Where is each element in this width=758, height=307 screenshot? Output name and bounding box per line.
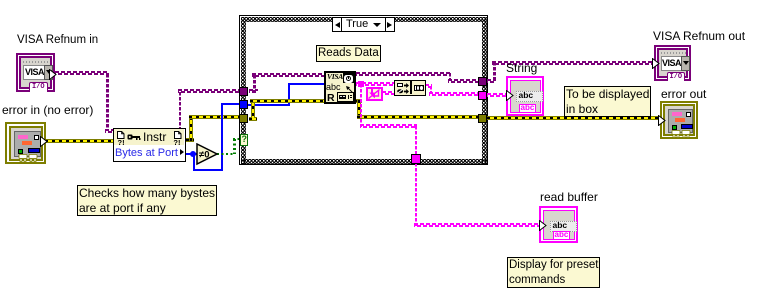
svg-text:≠0: ≠0 (199, 150, 210, 161)
